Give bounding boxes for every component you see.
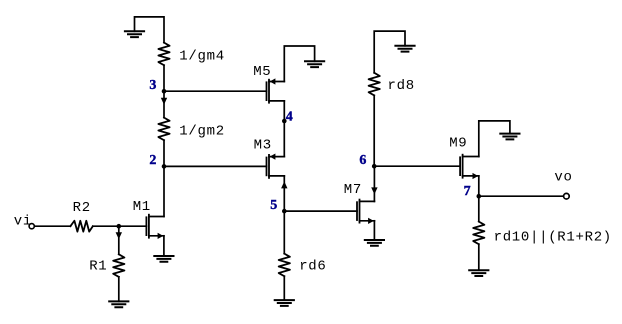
wire node 3 down to 1/gm2 with current arrow bbox=[161, 91, 167, 117]
node 5 dot bbox=[282, 209, 287, 214]
wire M5 top terminal to ground bbox=[284, 46, 314, 82]
resistor R2 bbox=[70, 221, 92, 232]
label rd10||(R1+R2) bbox=[494, 230, 612, 246]
resistor rd6 bbox=[279, 254, 290, 277]
node 2 dot bbox=[162, 164, 167, 169]
label M9 bbox=[449, 136, 467, 152]
label rd8 bbox=[388, 78, 415, 94]
input terminal vi (open circle) bbox=[29, 224, 34, 229]
transistor M7 bbox=[357, 200, 374, 224]
transistor M5 bbox=[267, 78, 285, 102]
label vi bbox=[14, 214, 32, 230]
node 3 label bbox=[149, 78, 156, 93]
label M5 bbox=[253, 64, 271, 80]
svg-text:M7: M7 bbox=[344, 182, 362, 198]
label R1 bbox=[89, 259, 107, 275]
wire node 4 up to M5 source bbox=[283, 101, 285, 121]
svg-text:R1: R1 bbox=[89, 259, 107, 275]
svg-text:3: 3 bbox=[149, 78, 156, 93]
svg-text:6: 6 bbox=[359, 153, 366, 168]
resistor 1/gm4 bbox=[158, 43, 169, 66]
wire M3 source down to node 5 with current arrow up bbox=[281, 176, 287, 211]
svg-text:vo: vo bbox=[554, 170, 572, 186]
wire node 7 to vo terminal bbox=[479, 195, 564, 197]
svg-text:M3: M3 bbox=[254, 138, 272, 154]
ground (M9) bbox=[500, 134, 519, 140]
resistor R1 bbox=[113, 254, 124, 277]
svg-text:rd10||(R1+R2): rd10||(R1+R2) bbox=[494, 230, 612, 246]
ground (rd6) bbox=[275, 300, 294, 306]
ground (M7 source) bbox=[365, 240, 384, 246]
svg-text:M5: M5 bbox=[253, 64, 271, 80]
wire M3 drain up to node 4 bbox=[283, 121, 285, 157]
svg-text:M1: M1 bbox=[133, 199, 151, 215]
svg-text:rd6: rd6 bbox=[299, 259, 326, 275]
node 2 label bbox=[149, 153, 156, 168]
wire node 3 to M5 gate bbox=[164, 90, 267, 92]
node 4 dot bbox=[282, 119, 287, 124]
svg-text:R2: R2 bbox=[73, 200, 91, 216]
ground (M5) bbox=[305, 61, 324, 67]
node 3 dot bbox=[162, 89, 167, 94]
resistor 1/gm2 bbox=[158, 118, 169, 141]
wire node 6 down to M7 drain with current arrow down bbox=[371, 166, 377, 201]
wire rd6 to ground bbox=[283, 276, 285, 300]
wire R1 to ground bbox=[118, 277, 120, 302]
wire vi to R2 bbox=[35, 225, 71, 227]
svg-text:1/gm4: 1/gm4 bbox=[179, 48, 225, 64]
ground (top left, 1/gm4) bbox=[125, 31, 144, 37]
wire node 5 to M7 gate bbox=[284, 210, 357, 212]
label rd6 bbox=[299, 259, 326, 275]
ground (M1 source) bbox=[154, 256, 173, 262]
label 1/gm4 bbox=[179, 48, 225, 64]
svg-text:M9: M9 bbox=[449, 136, 467, 152]
ground (rd8 top) bbox=[395, 46, 414, 52]
output terminal vo (open circle) bbox=[564, 193, 570, 199]
node 4 label bbox=[286, 110, 293, 125]
label M1 bbox=[133, 199, 151, 215]
svg-text:5: 5 bbox=[270, 198, 277, 213]
wire M1 drain up to node 2 bbox=[163, 166, 165, 216]
node 5 label bbox=[270, 198, 277, 213]
label 1/gm2 bbox=[179, 123, 225, 139]
wire node 3 up to 1/gm4 bbox=[163, 65, 165, 91]
node 7 dot bbox=[477, 194, 482, 199]
wire R2 to node J1 to M1 gate bbox=[93, 225, 147, 227]
wire M9 top terminal to ground bbox=[479, 121, 510, 157]
wire node 7 down to rd10 bbox=[478, 196, 480, 221]
resistor rd10||(R1+R2) bbox=[473, 222, 484, 245]
ground (below R1) bbox=[109, 301, 128, 307]
junction dot J1 bbox=[117, 224, 122, 229]
node 6 dot bbox=[372, 164, 377, 169]
transistor M3 bbox=[267, 154, 285, 178]
wire M7 source to ground bbox=[373, 221, 375, 240]
node 6 label bbox=[359, 153, 366, 168]
current arrow down from J1 into R1 bbox=[116, 228, 122, 254]
wire node 6 up to rd8 bbox=[373, 95, 375, 166]
wire node 5 down to rd6 bbox=[283, 211, 285, 254]
wire M1 source to ground bbox=[163, 236, 165, 256]
label vo bbox=[554, 170, 572, 186]
svg-text:4: 4 bbox=[286, 110, 293, 125]
svg-text:vi: vi bbox=[14, 214, 32, 230]
label R2 bbox=[73, 200, 91, 216]
transistor M1 bbox=[146, 215, 164, 239]
svg-text:rd8: rd8 bbox=[388, 78, 415, 94]
wire node 2 to M3 gate bbox=[164, 165, 267, 167]
wire 1/gm4 top to ground bbox=[135, 17, 165, 43]
wire rd10 to ground bbox=[478, 244, 480, 270]
wire node 2 up to 1/gm2 bbox=[163, 140, 165, 166]
ground (rd10) bbox=[469, 270, 488, 276]
svg-text:1/gm2: 1/gm2 bbox=[179, 123, 225, 139]
svg-text:2: 2 bbox=[149, 153, 156, 168]
resistor rd8 bbox=[369, 73, 380, 96]
label M3 bbox=[254, 138, 272, 154]
node 7 label bbox=[464, 184, 471, 199]
label M7 bbox=[344, 182, 362, 198]
transistor M9 bbox=[460, 155, 479, 179]
svg-text:7: 7 bbox=[464, 184, 471, 199]
wire node 6 to M9 gate bbox=[374, 165, 460, 167]
wire rd8 top to ground bbox=[374, 31, 405, 73]
wire M9 drain down to node 7 bbox=[478, 176, 480, 196]
